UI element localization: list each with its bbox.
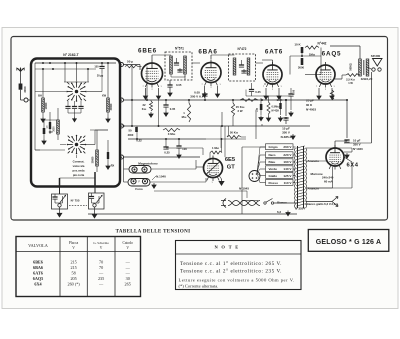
- svg-text:235: 235: [98, 276, 104, 281]
- wire HT secondary bottom: [306, 187, 353, 189]
- wire AVC bus: [124, 125, 311, 127]
- svg-text:32Ω/1,20: 32Ω/1,20: [361, 77, 373, 81]
- wire heater drop: [241, 203, 243, 214]
- svg-text:N° 755: N° 755: [71, 199, 80, 203]
- IF transformer N.472: [229, 54, 256, 81]
- svg-text:V: V: [126, 246, 129, 250]
- svg-text:3000: 3000: [23, 86, 27, 93]
- tuner terminal 2: [120, 98, 124, 102]
- resistor 1 M volume: [210, 151, 222, 154]
- wire riser x137b: [136, 126, 138, 139]
- capacitor 0.25 coupling: [249, 89, 254, 91]
- note box: [176, 241, 302, 290]
- tuner terminal 3: [120, 124, 124, 128]
- svg-text:30: 30: [126, 276, 130, 281]
- wire 6AQ5 grid: [305, 74, 316, 76]
- model box GELOSO G 126 A: [308, 230, 389, 252]
- svg-text:6AT6: 6AT6: [33, 271, 43, 276]
- resistor 50/3000: [135, 127, 138, 132]
- wire jacks: [124, 168, 130, 170]
- wire heater bus: [88, 213, 297, 215]
- ground: [291, 134, 295, 139]
- svg-text:V: V: [72, 246, 75, 250]
- svg-text:più corta: più corta: [73, 173, 85, 177]
- ground: [317, 94, 321, 99]
- svg-text:6BE6: 6BE6: [138, 47, 157, 54]
- voltage selector boxes: [266, 144, 294, 150]
- svg-text:Verde: Verde: [269, 167, 278, 171]
- tube 6E5 GT magic eye: [204, 159, 223, 178]
- resistor 100: [43, 128, 46, 134]
- ground: [164, 111, 168, 116]
- svg-text:Mω: Mω: [182, 115, 187, 119]
- svg-text:Magnetofono: Magnetofono: [138, 161, 158, 165]
- svg-text:6BA6: 6BA6: [198, 48, 217, 55]
- svg-text:205: 205: [70, 276, 76, 281]
- ground: [156, 94, 160, 99]
- svg-text:0.25: 0.25: [164, 151, 170, 155]
- wire riser x290: [289, 56, 291, 75]
- wire mains riser: [241, 147, 243, 203]
- tuner terminal 1: [120, 63, 124, 67]
- wire cathode: [158, 88, 160, 94]
- svg-text:V: V: [100, 246, 103, 250]
- svg-text:160 V: 160 V: [283, 160, 292, 164]
- rotary switch S1: [75, 90, 78, 93]
- svg-text:5000Ω: 5000Ω: [350, 63, 353, 70]
- svg-text:20 µµ: 20 µµ: [97, 75, 104, 78]
- wire B+ feed right: [371, 72, 373, 143]
- svg-text:BH: BH: [38, 94, 42, 98]
- svg-text:6AQ5: 6AQ5: [33, 276, 43, 281]
- svg-text:N° 2162-T: N° 2162-T: [63, 53, 79, 57]
- wire cathode: [331, 88, 333, 94]
- resistor cathode 6AQ5: [330, 90, 333, 100]
- resistor 3 M: [163, 128, 180, 131]
- svg-text:N°1045: N°1045: [239, 187, 249, 191]
- resistor 10K dropper: [240, 99, 258, 102]
- wire top segment near 6AQ5: [330, 45, 360, 47]
- wire grid bus: [128, 138, 206, 140]
- transformer secondary winding: [306, 148, 307, 152]
- tube 6AT6: [263, 65, 282, 84]
- svg-text:60 mA: 60 mA: [324, 179, 334, 183]
- wire 6AT6 out: [251, 83, 253, 85]
- wire 6E5 grid cap: [202, 148, 204, 155]
- svg-text:50 Kω: 50 Kω: [230, 131, 239, 135]
- svg-text:260 V: 260 V: [283, 145, 292, 149]
- capacitor electrolytic 25u: [260, 104, 263, 110]
- svg-text:50 µ: 50 µ: [127, 60, 133, 64]
- svg-text:Giallo: Giallo: [269, 174, 278, 178]
- svg-text:N°3554: N°3554: [295, 207, 305, 211]
- svg-text:Catodo: Catodo: [123, 241, 134, 245]
- wire riser x132: [131, 65, 133, 127]
- padder trimmer group A: [52, 194, 68, 209]
- ground: [149, 112, 153, 117]
- resistor 3000 antenna: [19, 84, 23, 90]
- svg-text:30000: 30000: [92, 156, 95, 163]
- wire 6BA6 plate to IF2: [210, 55, 212, 59]
- wire bottom inner: [60, 177, 96, 179]
- svg-text:Commut.: Commut.: [73, 160, 85, 164]
- wire mains top: [242, 200, 258, 202]
- wire cathode: [278, 88, 280, 94]
- wire 6X4 heater: [332, 167, 334, 188]
- wire riser x233: [232, 116, 234, 126]
- coil L1: [42, 98, 45, 112]
- wire HT secondary mid: [306, 160, 328, 162]
- svg-text:—: —: [98, 282, 104, 287]
- svg-text:260 (*): 260 (*): [67, 282, 80, 287]
- capacitor 150: [101, 63, 103, 66]
- svg-text:30000: 30000: [110, 103, 113, 110]
- wire riser x262: [261, 124, 263, 126]
- svg-text:125 V: 125 V: [283, 174, 292, 178]
- wire 6BE6 plate to IF1: [151, 55, 153, 60]
- output transformer: [359, 59, 362, 76]
- wire cathode: [145, 88, 147, 94]
- wire 6X4 cathode: [334, 141, 336, 148]
- capacitor 0.05 AF: [204, 92, 206, 97]
- power transformer core: [297, 146, 299, 208]
- svg-text:Arancio: Arancio: [308, 187, 320, 191]
- svg-text:10000: 10000: [45, 102, 48, 109]
- ground: [330, 94, 334, 99]
- svg-text:N°442: N°442: [318, 42, 327, 46]
- svg-text:vista rela: vista rela: [73, 164, 85, 168]
- tube 6X4 rectifier: [326, 148, 344, 166]
- wire riser x205: [204, 92, 206, 100]
- svg-text:Grigio: Grigio: [269, 145, 278, 149]
- ground: [215, 92, 219, 97]
- ground: [57, 211, 62, 217]
- ground: [202, 92, 206, 97]
- wire cathode: [204, 86, 206, 92]
- wire coupling row: [245, 90, 247, 97]
- coil L4: [96, 150, 99, 166]
- voice coil terminals: [372, 68, 375, 71]
- svg-text:GT: GT: [227, 164, 236, 170]
- ground: [286, 211, 290, 216]
- antenna terminal: [24, 98, 28, 102]
- ground: [266, 116, 270, 121]
- ground: [259, 116, 263, 121]
- svg-text:6,3: 6,3: [277, 210, 281, 214]
- svg-text:N°4003: N°4003: [306, 107, 316, 111]
- wire magnetofono to grid: [151, 168, 196, 170]
- wire top inside tuner: [35, 62, 116, 64]
- svg-text:N.385-2: N.385-2: [281, 135, 292, 139]
- svg-text:TABELLA DELLE TENSIONI: TABELLA DELLE TENSIONI: [116, 229, 191, 234]
- wire heater run: [154, 190, 247, 192]
- svg-text:0.05: 0.05: [170, 107, 176, 111]
- jack Magnetofono: [129, 166, 151, 174]
- capacitor 0.25: [165, 139, 167, 147]
- svg-text:350 V: 350 V: [282, 131, 290, 135]
- svg-text:3000: 3000: [298, 66, 305, 70]
- ground: [277, 94, 281, 99]
- wire cathode: [217, 86, 219, 92]
- wire riser x147: [146, 67, 148, 101]
- svg-text:350 V: 350 V: [353, 143, 361, 147]
- transformer primary winding: [294, 148, 295, 152]
- svg-text:GELOSO * G 126 A: GELOSO * G 126 A: [316, 239, 382, 246]
- wire S1 feeds: [64, 63, 66, 82]
- mains plug: [221, 199, 226, 208]
- svg-text:110 V: 110 V: [284, 181, 293, 185]
- ground: [289, 111, 293, 116]
- wire riser x158: [158, 100, 160, 126]
- speaker horn: [373, 59, 383, 67]
- wire IF1 to 6BA6: [184, 76, 186, 81]
- wire cathode: [265, 88, 267, 94]
- ground: [73, 117, 77, 122]
- svg-text:215: 215: [70, 265, 76, 270]
- svg-text:Kω: Kω: [142, 107, 147, 111]
- wire drop to trimmer A: [59, 178, 61, 187]
- svg-text:0.5Mω: 0.5Mω: [272, 105, 281, 109]
- svg-text:Letture eseguite con voltmetro: Letture eseguite con voltmetro a 5000 Oh…: [179, 278, 295, 283]
- svg-text:N°472: N°472: [238, 47, 247, 51]
- svg-text:100: 100: [49, 131, 54, 134]
- svg-text:3000: 3000: [128, 133, 134, 137]
- svg-text:150: 150: [94, 66, 99, 69]
- resistor RX: [107, 152, 109, 159]
- svg-text:30 K: 30 K: [306, 103, 313, 107]
- svg-text:Tensione c.c. al 2° elettrolit: Tensione c.c. al 2° elettrolitico: 235 V…: [180, 267, 282, 274]
- capacitor 0.05 screen: [165, 100, 167, 105]
- svg-text:—: —: [98, 271, 104, 276]
- svg-text:Rosso: Rosso: [269, 181, 279, 185]
- wire to 6E5 left: [196, 166, 205, 168]
- svg-text:VALVOLA: VALVOLA: [28, 243, 49, 248]
- resistor 2.5k tone: [346, 74, 359, 77]
- wire 6AT6 plate: [272, 60, 274, 65]
- svg-text:N.1040: N.1040: [156, 175, 166, 179]
- svg-text:Nero: Nero: [269, 153, 276, 157]
- svg-text:—: —: [125, 271, 131, 276]
- svg-text:RX: RX: [111, 164, 115, 168]
- antenna: [17, 68, 24, 75]
- svg-text:0.25: 0.25: [255, 90, 261, 94]
- ground: [168, 91, 172, 96]
- svg-text:3 Mω: 3 Mω: [168, 132, 176, 136]
- ground: [106, 117, 110, 122]
- selector wires: [260, 146, 266, 148]
- wire riser x222: [221, 112, 223, 126]
- svg-text:N°571: N°571: [175, 47, 184, 51]
- mains cord twisted: [228, 201, 260, 206]
- wire terminal1 to 6BE6: [124, 64, 141, 66]
- ground: [92, 212, 97, 218]
- wire 6AT6 grid: [255, 112, 257, 139]
- svg-text:—: —: [125, 260, 131, 265]
- svg-text:G. Schermo: G. Schermo: [93, 241, 109, 245]
- trimmer row under S1: [67, 101, 69, 107]
- ground: [106, 164, 110, 169]
- ground: [143, 94, 147, 99]
- svg-text:58: 58: [72, 271, 76, 276]
- coil L3: [107, 98, 110, 112]
- svg-text:SP.300: SP.300: [371, 54, 381, 58]
- wire heater secondary: [306, 201, 333, 203]
- tuner terminal 4: [120, 155, 124, 159]
- ground: [177, 153, 181, 158]
- wire AF bus: [124, 156, 201, 158]
- svg-text:265: 265: [125, 282, 131, 287]
- svg-text:XW: XW: [102, 94, 107, 98]
- svg-text:25µ: 25µ: [256, 107, 259, 112]
- svg-text:Bianco: Bianco: [277, 201, 287, 205]
- wire S2 feeds: [86, 144, 95, 146]
- resistor 3000 screen: [301, 58, 304, 65]
- svg-text:2,5 Kω: 2,5 Kω: [346, 78, 355, 82]
- svg-text:(*) Corrente alternata.: (*) Corrente alternata.: [179, 284, 219, 289]
- svg-text:Placca: Placca: [69, 241, 79, 245]
- ground: [152, 183, 156, 188]
- ground: [264, 94, 268, 99]
- svg-text:1 Mω: 1 Mω: [212, 146, 220, 150]
- svg-text:140 V: 140 V: [283, 167, 292, 171]
- svg-text:N°439: N°439: [272, 109, 280, 113]
- wire mid inner: [43, 119, 58, 121]
- resistor 1.5: [49, 122, 51, 129]
- svg-text:Tensione c.c. al 1° elettrolit: Tensione c.c. al 1° elettrolitico: 265 V…: [180, 260, 282, 267]
- wire riser x321: [320, 48, 322, 75]
- junction dots tuner: [42, 62, 44, 64]
- rotary switch S2: [75, 143, 78, 146]
- wire plate 6AQ5 to OT: [335, 78, 342, 80]
- svg-text:10 K: 10 K: [294, 43, 301, 47]
- ground: [42, 139, 46, 144]
- ground: [345, 153, 349, 158]
- wire drop to trimmer B: [94, 172, 96, 187]
- svg-text:Bleu: Bleu: [269, 160, 276, 164]
- capacitor 0.05 under IF1: [169, 80, 171, 85]
- svg-text:6E5: 6E5: [225, 157, 236, 163]
- svg-text:50: 50: [128, 129, 132, 133]
- svg-text:6X4: 6X4: [34, 282, 42, 287]
- svg-text:N O T E: N O T E: [214, 245, 239, 250]
- heater arrows: [332, 197, 338, 207]
- wire top2 inside tuner: [35, 68, 96, 70]
- padder trimmer group B: [89, 193, 105, 209]
- svg-text:0.05: 0.05: [176, 83, 182, 87]
- junction dots: [146, 99, 148, 101]
- wire HT secondary top: [306, 147, 353, 149]
- wire AF segment: [166, 147, 203, 149]
- tuner unit box N.2162-T: [31, 59, 120, 187]
- svg-text:Fono: Fono: [135, 187, 142, 191]
- IF transformer N.571: [165, 52, 192, 80]
- wire fono to 6E5: [150, 181, 206, 183]
- svg-text:N°1020: N°1020: [353, 147, 363, 151]
- wire riser x228: [228, 126, 230, 135]
- jack Fono: [128, 179, 150, 187]
- svg-text:10 K: 10 K: [277, 98, 283, 102]
- mains switch: [264, 202, 266, 204]
- svg-text:2 W: 2 W: [238, 109, 243, 113]
- svg-text:6AT6: 6AT6: [265, 49, 283, 56]
- wire screen bus: [124, 99, 348, 101]
- svg-text:6BE6: 6BE6: [33, 260, 43, 265]
- svg-text:3000: 3000: [54, 126, 56, 132]
- svg-text:215: 215: [70, 260, 76, 265]
- svg-text:100: 100: [182, 147, 187, 151]
- svg-text:6AQ5: 6AQ5: [322, 50, 342, 57]
- svg-text:1 W: 1 W: [348, 81, 353, 85]
- svg-text:6X4: 6X4: [346, 163, 358, 169]
- capacitor 100: [178, 139, 180, 146]
- resistor 1 M: [187, 103, 190, 122]
- svg-text:300 V A.F: 300 V A.F: [190, 95, 204, 99]
- wire B+ from 6X4: [346, 100, 348, 138]
- wire IF2 to 6AT6: [256, 62, 264, 64]
- svg-text:70: 70: [99, 260, 103, 265]
- voltage table: [16, 237, 141, 297]
- ground 6E5: [219, 176, 222, 180]
- tube 6AQ5: [316, 65, 335, 84]
- tube 6BE6: [142, 63, 163, 84]
- capacitor 15uF 350V: [285, 100, 287, 116]
- tube 6BA6: [201, 63, 221, 83]
- ground: [278, 116, 282, 121]
- schematic outer frame: [11, 37, 388, 221]
- capacitor 10uF N.1020: [344, 142, 352, 144]
- svg-text:—: —: [125, 265, 131, 270]
- resistor 0.5M grid leak: [267, 102, 270, 114]
- svg-text:pos.onda: pos.onda: [73, 169, 85, 173]
- coil L2: [57, 120, 60, 134]
- ground: [41, 117, 45, 122]
- svg-text:220 V: 220 V: [283, 153, 292, 157]
- wire cathode: [318, 88, 320, 94]
- svg-text:70: 70: [99, 265, 103, 270]
- wire left riser: [34, 63, 36, 150]
- svg-text:6BA6: 6BA6: [33, 265, 43, 270]
- selector plug N.1045: [249, 171, 260, 182]
